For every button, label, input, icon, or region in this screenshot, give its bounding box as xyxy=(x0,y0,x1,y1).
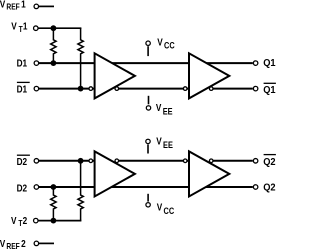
svg-text:D1: D1 xyxy=(17,84,28,95)
inverting input bubble A1 xyxy=(89,87,93,91)
svg-text:Q1: Q1 xyxy=(263,58,276,69)
svg-text:D2: D2 xyxy=(17,183,28,194)
label D2 xyxy=(17,183,28,194)
junction D2-R3 xyxy=(51,184,57,190)
terminal D2bar xyxy=(34,159,39,164)
label VT1 xyxy=(11,21,27,34)
svg-text:D2: D2 xyxy=(17,156,28,167)
wire A4 inverted output to Q2bar xyxy=(211,160,253,162)
svg-text:D1: D1 xyxy=(17,58,28,69)
label Q2 xyxy=(263,182,275,193)
terminal Q2 xyxy=(253,185,258,190)
svg-text:Q2: Q2 xyxy=(263,157,275,168)
label D2bar xyxy=(17,155,30,167)
label VCC channel1 xyxy=(157,37,175,51)
inverting input bubble A4 xyxy=(183,159,187,163)
junction D1-R1 xyxy=(51,60,57,66)
label D1bar xyxy=(17,82,30,94)
terminal VREF2 xyxy=(34,241,39,246)
label VREF2 xyxy=(0,239,26,250)
terminal D1 xyxy=(34,61,39,66)
wire VT1 horizontal xyxy=(38,27,81,29)
junction D2bar-R4 xyxy=(78,158,84,164)
label VEE channel1 xyxy=(156,102,173,116)
inverting output bubble A2 xyxy=(209,87,213,91)
wire D1 line to output Q1 xyxy=(39,62,253,64)
power pin VEE channel2 xyxy=(146,139,150,153)
wire A1 inverted output to A2 inverted input xyxy=(117,88,189,90)
label VT2 xyxy=(11,215,27,228)
label D1 xyxy=(17,58,28,69)
resistor R1 left channel1 xyxy=(51,28,56,63)
svg-text:Q1: Q1 xyxy=(263,85,276,96)
wire VREF2 stub xyxy=(39,242,54,244)
inverting output bubble A1 xyxy=(115,87,119,91)
terminal VT1 xyxy=(34,26,39,31)
op-amp A3 channel2 input stage xyxy=(95,151,135,196)
label VCC channel2 xyxy=(157,202,175,216)
label VEE channel2 xyxy=(156,136,173,150)
inverting output bubble A3 xyxy=(115,159,119,163)
svg-text:Q2: Q2 xyxy=(263,182,275,193)
junction D1bar-R2 xyxy=(78,86,84,92)
power pin VEE channel1 xyxy=(146,96,150,110)
op-amp A2 channel1 output stage xyxy=(189,53,229,98)
wire A3 inverted output to A4 inverted input xyxy=(117,160,189,162)
terminal Q1bar xyxy=(253,86,258,91)
label Q1bar xyxy=(263,83,276,96)
terminal Q2bar xyxy=(253,159,258,164)
op-amp A1 channel1 input stage xyxy=(95,53,135,98)
power pin VCC channel2 xyxy=(146,194,150,207)
wire D2 line to output Q2 xyxy=(39,186,253,188)
wire D2bar input segment xyxy=(39,160,94,162)
resistor R2 right channel1 xyxy=(78,28,83,88)
label Q2bar xyxy=(263,155,276,168)
terminal Q1 xyxy=(253,61,258,66)
resistor R3 left channel2 xyxy=(51,187,56,221)
resistor R4 right channel2 xyxy=(78,161,83,221)
wire VREF1 stub xyxy=(39,5,54,7)
inverting input bubble A3 xyxy=(89,159,93,163)
junction VT2-R3 xyxy=(51,218,57,224)
label Q1 xyxy=(263,58,276,69)
label VREF1 xyxy=(0,0,26,11)
wire VT2 horizontal xyxy=(38,220,81,222)
terminal VT2 xyxy=(34,218,39,223)
wire A2 inverted output to Q1bar xyxy=(211,88,253,90)
terminal D1bar xyxy=(34,86,39,91)
inverting input bubble A2 xyxy=(183,87,187,91)
inverting output bubble A4 xyxy=(209,159,213,163)
power pin VCC channel1 xyxy=(146,41,150,56)
terminal VREF1 xyxy=(34,4,39,8)
terminal D2 xyxy=(34,185,39,190)
wire D1bar input segment xyxy=(39,88,94,90)
op-amp A4 channel2 output stage xyxy=(189,151,229,196)
junction VT1-R1 xyxy=(51,25,57,31)
